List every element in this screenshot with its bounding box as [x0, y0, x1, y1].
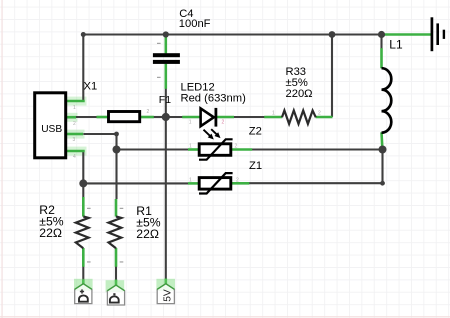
svg-text:100nF: 100nF [179, 18, 211, 30]
svg-text:2: 2 [147, 109, 150, 115]
svg-text:1: 1 [189, 120, 192, 126]
svg-text:220Ω: 220Ω [286, 88, 313, 100]
svg-text:L1: L1 [389, 37, 403, 51]
svg-text:22Ω: 22Ω [136, 227, 159, 241]
svg-text:1: 1 [189, 177, 192, 183]
svg-text:USB: USB [41, 124, 62, 135]
svg-text:1: 1 [189, 144, 192, 150]
svg-text:X1: X1 [84, 80, 98, 92]
svg-text:Z2: Z2 [249, 126, 262, 138]
svg-text:22Ω: 22Ω [39, 226, 62, 240]
svg-text:1: 1 [272, 111, 275, 117]
svg-text:2: 2 [236, 177, 239, 183]
svg-text:F1: F1 [159, 94, 171, 106]
svg-text:2: 2 [318, 111, 321, 117]
svg-text:4: 4 [73, 154, 76, 160]
svg-text:LED12: LED12 [181, 81, 215, 93]
svg-text:3: 3 [73, 137, 76, 143]
svg-text:2: 2 [235, 144, 238, 150]
svg-text:R33: R33 [286, 66, 307, 78]
svg-text:2: 2 [222, 120, 225, 126]
svg-text:2: 2 [73, 121, 76, 127]
svg-text:5V: 5V [161, 289, 173, 301]
svg-text:1: 1 [73, 105, 76, 111]
svg-text:Z1: Z1 [249, 160, 262, 172]
svg-text:Red (633nm): Red (633nm) [181, 93, 247, 105]
